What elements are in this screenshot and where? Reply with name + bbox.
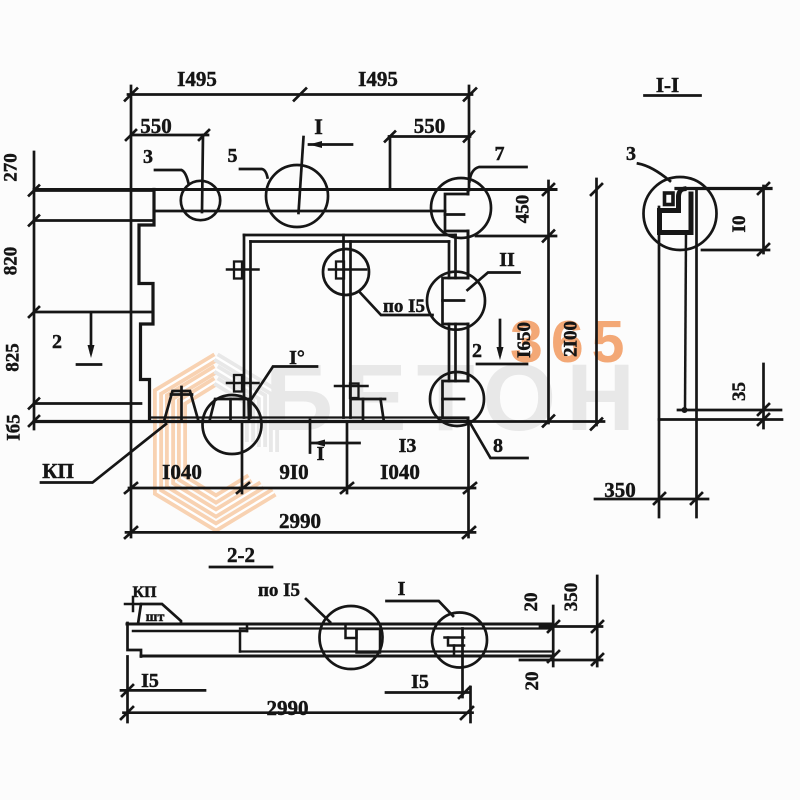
left ext line y312 — [34, 311, 153, 314]
circle detail 7 right — [431, 178, 491, 238]
svg-text:7: 7 — [495, 143, 505, 165]
panel top rib bottom y211 — [154, 210, 445, 213]
dim 15 left line — [121, 689, 205, 692]
svg-text:I040: I040 — [162, 460, 202, 484]
tick b1 — [125, 483, 137, 493]
svg-text:I°: I° — [289, 347, 305, 369]
label 5 leader — [240, 169, 268, 178]
tick 550R b — [464, 132, 474, 142]
tick 20a — [548, 621, 559, 632]
tick 35 a — [758, 404, 769, 415]
svg-text:35: 35 — [729, 382, 750, 401]
svg-text:КП: КП — [42, 459, 74, 483]
svg-text:по I5: по I5 — [383, 296, 425, 317]
dim 350 bottom line — [595, 498, 708, 501]
label I leader (2-2) — [387, 601, 454, 616]
section mark 2 left: base line — [77, 363, 101, 366]
svg-text:по I5: по I5 — [258, 580, 300, 601]
tick 10 top — [758, 183, 769, 194]
tick 15R — [459, 687, 470, 698]
label KP leader — [41, 424, 166, 483]
panel right edge segments x468 — [467, 190, 470, 195]
left tick y220 — [29, 216, 39, 226]
label po15 leader (2-2) — [306, 599, 330, 622]
right opening right edge double lines (interrupted at keyway notches) — [454, 235, 457, 278]
tick r5 — [591, 419, 602, 430]
I-I title underline — [645, 94, 701, 97]
svg-text:8: 8 — [493, 435, 503, 457]
I-I top face line — [676, 187, 771, 190]
right keyway notch 1 — [445, 194, 468, 231]
right keyway notch 2 — [443, 278, 469, 324]
ext line y250 — [702, 249, 769, 252]
embed E1 upper-left — [234, 262, 242, 279]
dim 20/20 vertical x553 — [552, 606, 555, 666]
2-2 title underline — [210, 566, 272, 569]
svg-text:I040: I040 — [380, 460, 420, 484]
right dims ext bottom — [520, 659, 602, 662]
I-I right edge vertical — [695, 189, 698, 518]
svg-text:550: 550 — [140, 114, 172, 138]
svg-text:II: II — [499, 249, 515, 271]
circle 3 of I-I — [644, 177, 717, 250]
section mark I bottom: vertical line — [309, 420, 312, 453]
circle around embed E2 — [323, 249, 369, 295]
svg-text:9I0: 9I0 — [279, 460, 308, 484]
tick b2 — [237, 483, 249, 493]
dim 350 vertical x597 — [596, 576, 599, 666]
right extension x470 — [469, 687, 472, 722]
svg-text:550: 550 — [414, 114, 446, 138]
svg-text:5: 5 — [228, 145, 238, 167]
svg-text:I-I: I-I — [656, 73, 679, 97]
watermark logo hexagon chevrons — [158, 357, 274, 527]
svg-text:I650: I650 — [514, 322, 535, 358]
svg-text:шт: шт — [146, 610, 165, 625]
section mark 2 right: base line — [477, 363, 527, 366]
label 7 leader — [470, 167, 527, 182]
tick b3 — [341, 483, 353, 493]
tick 350a — [592, 621, 603, 632]
ext line y419.5 — [659, 418, 782, 421]
svg-text:3: 3 — [626, 143, 636, 165]
svg-text:2: 2 — [472, 340, 482, 362]
svg-text:I: I — [317, 443, 325, 465]
bottom dim line 2990 — [126, 531, 475, 534]
left tick y190 — [29, 186, 39, 196]
svg-text:20: 20 — [522, 672, 543, 691]
ring 1 outer: orange left/bottom part — [158, 357, 274, 527]
ring 2 middle: orange part — [170, 369, 262, 513]
tick 350 a — [654, 493, 665, 504]
circle detail 5 top — [266, 165, 328, 227]
right dims ext top — [540, 625, 602, 628]
left tick y421 — [29, 416, 39, 426]
svg-text:I: I — [398, 578, 406, 600]
tick 550R a — [385, 132, 395, 142]
svg-text:I5: I5 — [411, 671, 429, 693]
right dims of plan: ext y236 — [476, 235, 556, 238]
dim 550 right line — [389, 135, 470, 138]
svg-text:820: 820 — [1, 247, 22, 276]
tick 10 bottom — [758, 244, 769, 255]
detail T1b trapezoid inside circle 1 — [210, 399, 250, 421]
section mark I top: vertical line — [299, 137, 304, 213]
left dimension column vertical x34 — [33, 152, 36, 429]
svg-text:I495: I495 — [177, 67, 217, 91]
circle I of 2-2 — [432, 613, 487, 668]
middle joint step detail — [346, 624, 357, 638]
embed E2 on mullion (circled) — [336, 262, 344, 279]
svg-text:450: 450 — [513, 195, 534, 224]
left opening edge double lines — [243, 235, 246, 418]
panel right edge extension below panel — [467, 422, 470, 538]
I-I left edge vertical — [658, 207, 661, 517]
lifting loop T1 trapezoid with cross — [165, 391, 199, 420]
left ext line y220 — [34, 219, 152, 222]
extension 550R down to panel — [389, 137, 392, 190]
slab left end closure — [128, 623, 142, 657]
bottom extension x242 — [241, 422, 244, 494]
tick r2 — [543, 231, 554, 242]
tick 350 b — [691, 493, 702, 504]
tick 2990a — [121, 707, 133, 719]
tick r3 — [543, 416, 554, 427]
svg-text:I5: I5 — [141, 670, 159, 692]
tick 350b — [592, 654, 603, 665]
svg-text:825: 825 — [3, 343, 24, 372]
ring 1 outer: gray top-right part — [216, 357, 274, 452]
dim line 450/1650 x548 — [547, 181, 550, 423]
panel top edge y189 — [34, 188, 556, 191]
svg-text:I: I — [314, 114, 323, 139]
tick 20b — [548, 651, 559, 662]
label po15 leader — [361, 293, 433, 315]
section mark I top: arrow — [309, 143, 352, 146]
svg-text:350: 350 — [604, 478, 636, 502]
left tick y312 — [29, 307, 39, 317]
dim 35 vertical line — [762, 364, 765, 428]
svg-text:2: 2 — [52, 331, 62, 353]
section mark 2 left: arrow down — [90, 313, 93, 352]
KP cross mark — [125, 603, 141, 606]
tick c2 — [463, 527, 475, 538]
circle detail 1 — [203, 395, 262, 454]
svg-text:I0: I0 — [729, 216, 750, 233]
slab inner top line — [240, 627, 553, 629]
dim 2990 line (2-2) — [124, 711, 473, 714]
I-I inner vertical with dot end — [685, 232, 686, 410]
threshold П detail in right opening — [351, 398, 385, 401]
tick c1 — [125, 527, 137, 538]
tick 550L a — [126, 130, 136, 140]
tick b4 — [464, 483, 476, 493]
left ext line y403 — [34, 402, 141, 405]
panel left edge stepped profile — [139, 190, 154, 422]
tick top-mid — [294, 89, 306, 101]
svg-text:I3: I3 — [399, 435, 417, 457]
tick 35 b — [758, 414, 769, 425]
svg-text:2990: 2990 — [267, 696, 309, 720]
tick r4 — [591, 184, 602, 195]
rib line through circle 3 — [202, 135, 203, 212]
svg-text:270: 270 — [1, 153, 22, 182]
tick top-right — [464, 89, 476, 101]
extension line left vertical x131 — [130, 86, 133, 537]
section mark I bottom: arrow — [312, 442, 360, 445]
openings top lintel double line — [244, 234, 456, 237]
circle po15 of 2-2 — [320, 606, 383, 669]
dim 550 left line — [131, 134, 208, 137]
dim 10: vertical line — [762, 186, 765, 253]
panel bottom edge upper line — [150, 416, 468, 418]
section mark 2 right: arrow down — [499, 320, 502, 354]
dim line 2100 x596 — [595, 179, 598, 425]
tick r1 — [543, 184, 554, 195]
label 11 leader — [468, 273, 520, 291]
svg-text:3: 3 — [143, 146, 153, 168]
label 8 leader — [471, 425, 528, 459]
svg-text:Iб5: Iб5 — [4, 414, 25, 440]
right keyway notch 3 — [443, 381, 469, 418]
svg-text:2-2: 2-2 — [227, 543, 255, 567]
tick 15L — [122, 685, 133, 696]
embed E4 lower mullion — [350, 384, 359, 399]
middle mullion double lines — [342, 235, 345, 418]
left tick y403 — [29, 399, 39, 409]
svg-text:КП: КП — [132, 584, 157, 601]
panel bottom edge lower line — [34, 420, 470, 423]
label 3 leader (I-I) — [638, 164, 670, 182]
extension from right joint down — [461, 629, 464, 698]
left groove lines — [133, 630, 247, 633]
tick 550L b — [199, 130, 209, 140]
left ext line y190 — [34, 189, 154, 192]
circle detail 3 top — [181, 181, 220, 220]
label 3 leader — [155, 170, 189, 184]
svg-text:2I00: 2I00 — [561, 321, 582, 357]
right dims ext y421 to right — [470, 420, 604, 423]
ring 3 inner: gray part — [216, 381, 250, 442]
ring 2 middle: gray part — [216, 369, 262, 447]
svg-text:350: 350 — [561, 583, 582, 612]
slab bottom face — [141, 655, 553, 658]
bottom dim line 1040/910/1040 — [129, 487, 475, 490]
left end extension down — [126, 657, 129, 723]
bottom extension x347 — [346, 422, 349, 494]
svg-text:20: 20 — [521, 593, 542, 612]
embed E3 lower-left — [234, 375, 242, 392]
boot inner loop — [665, 193, 674, 205]
dim 15 right line — [386, 691, 470, 694]
ext line y410 — [678, 409, 781, 412]
boot keyway detail thick strokes — [660, 189, 692, 233]
svg-text:2990: 2990 — [279, 509, 321, 533]
ring 3 inner: orange part — [182, 381, 250, 499]
top dimension line 2x1495 — [128, 93, 472, 96]
right joint step detail — [445, 636, 465, 639]
circle detail 11 right — [427, 272, 485, 330]
svg-text:I495: I495 — [358, 67, 398, 91]
tick 2990b — [461, 707, 473, 719]
tick top-left — [125, 89, 137, 101]
extension line right vertical x469 — [468, 86, 471, 190]
circle detail 8 right — [430, 372, 484, 426]
slab top face — [127, 623, 553, 626]
label 1deg leader — [252, 367, 318, 400]
KP lifting bump — [138, 604, 181, 624]
slab inner bottom line — [240, 650, 553, 652]
